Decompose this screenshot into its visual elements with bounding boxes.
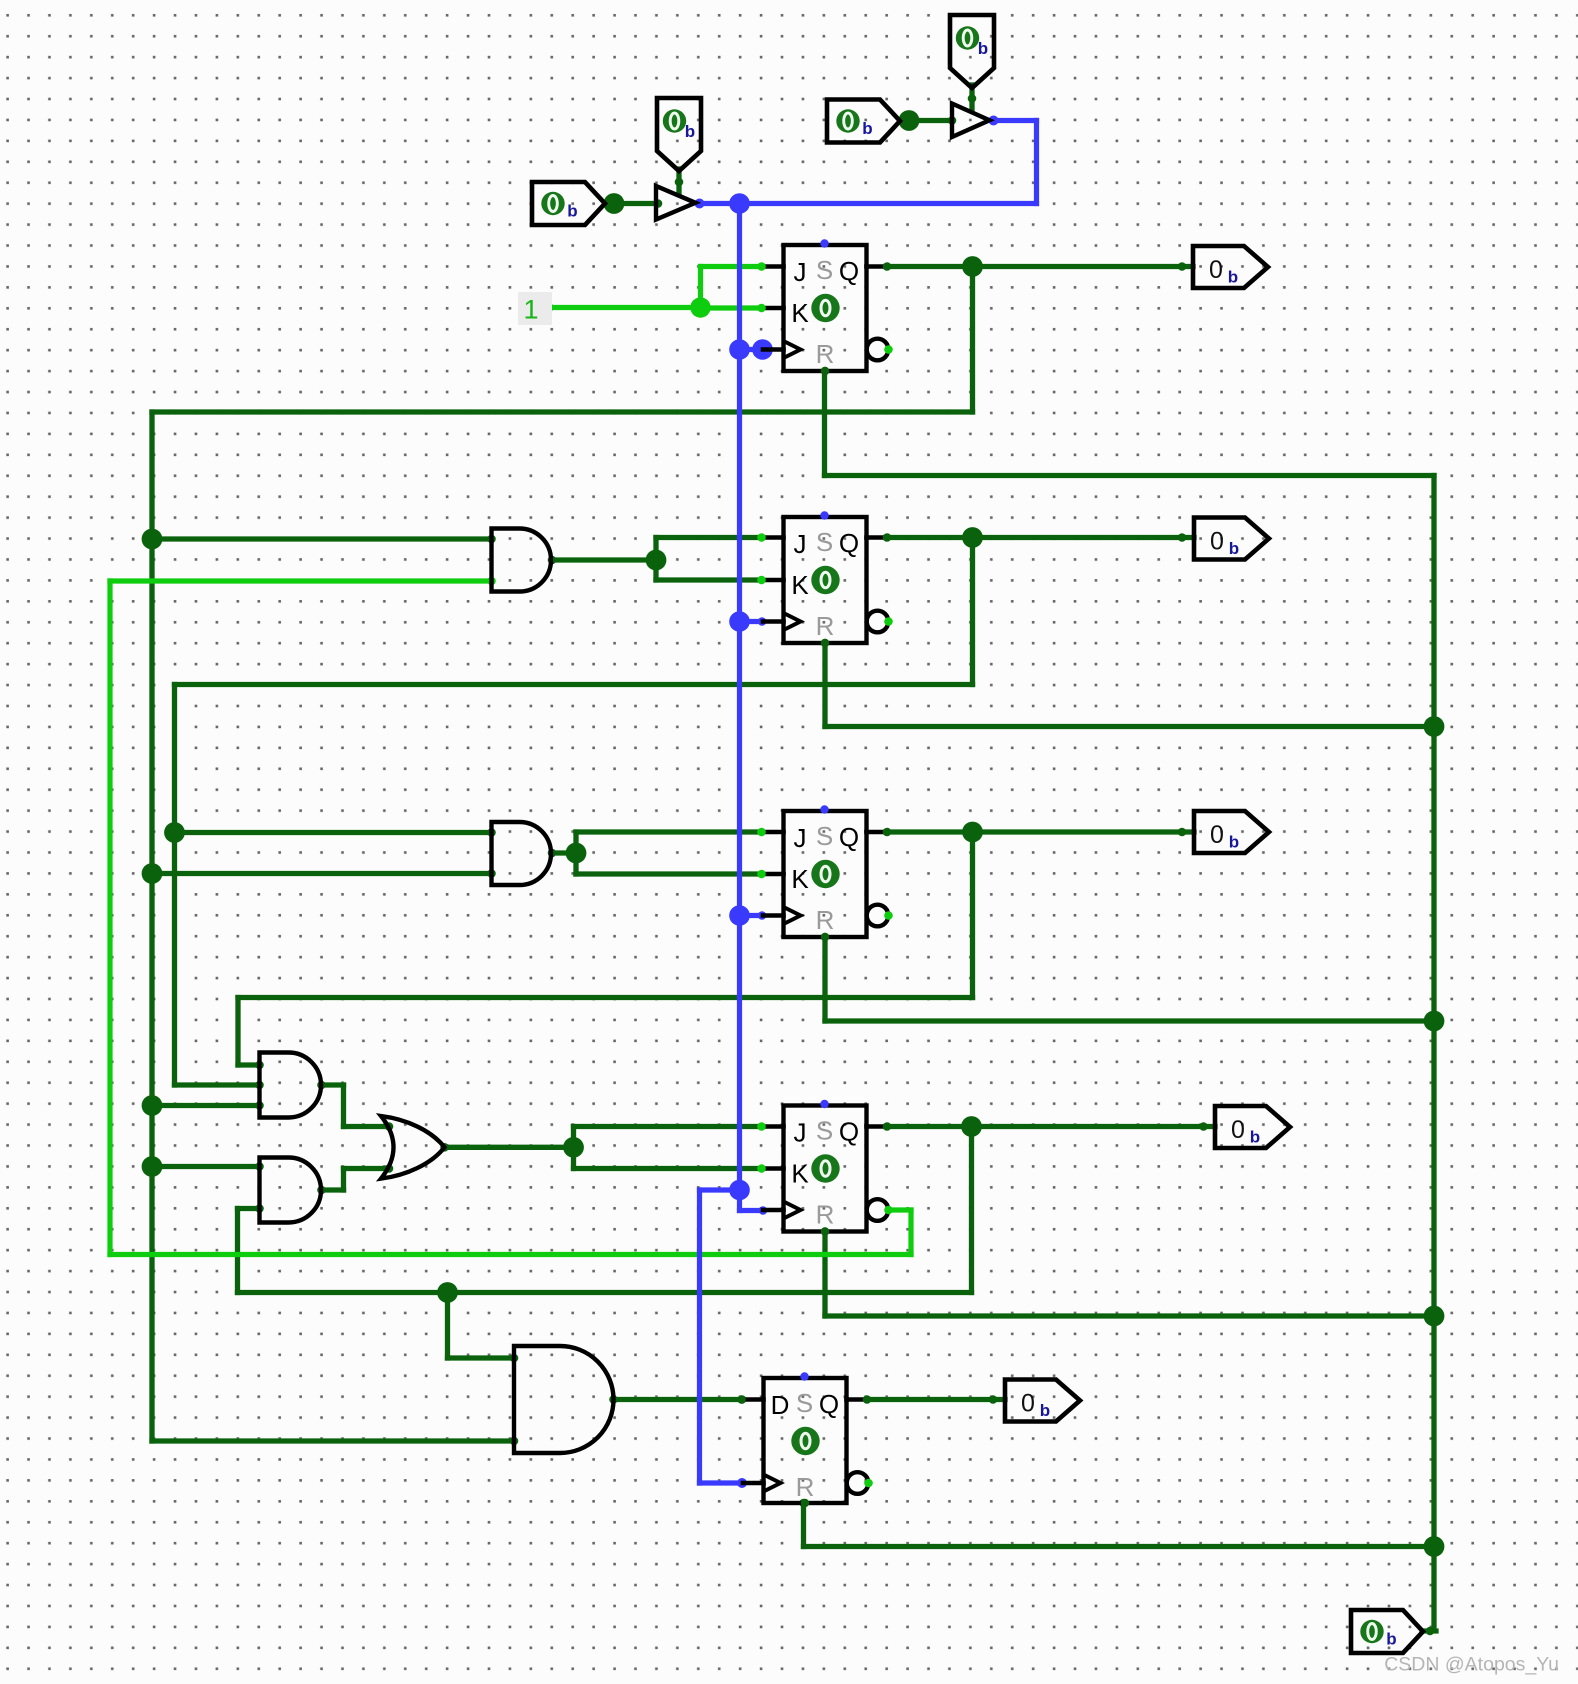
- svg-text:0: 0: [1231, 1116, 1245, 1144]
- svg-text:CSDN @Atopos_Yu: CSDN @Atopos_Yu: [1384, 1654, 1559, 1676]
- svg-text:S: S: [816, 527, 833, 557]
- svg-text:J: J: [794, 529, 807, 559]
- svg-text:K: K: [791, 298, 809, 328]
- svg-text:1: 1: [523, 295, 538, 325]
- svg-text:Q: Q: [839, 822, 859, 852]
- svg-text:R: R: [816, 611, 835, 641]
- svg-text:b: b: [1228, 268, 1238, 287]
- svg-text:R: R: [796, 1472, 815, 1502]
- svg-text:b: b: [1250, 1128, 1260, 1147]
- svg-text:0: 0: [1210, 528, 1224, 556]
- svg-text:J: J: [794, 823, 807, 853]
- svg-text:b: b: [1229, 833, 1239, 852]
- svg-text:R: R: [816, 339, 835, 369]
- svg-text:K: K: [791, 1159, 809, 1189]
- svg-text:R: R: [816, 1200, 835, 1230]
- svg-text:b: b: [567, 202, 577, 221]
- svg-text:S: S: [796, 1388, 813, 1418]
- svg-text:J: J: [794, 1118, 807, 1148]
- svg-text:Q: Q: [839, 256, 859, 286]
- svg-text:R: R: [816, 905, 835, 935]
- svg-text:0: 0: [1021, 1390, 1035, 1418]
- svg-text:0: 0: [1210, 821, 1224, 849]
- svg-text:b: b: [1229, 539, 1239, 558]
- svg-text:J: J: [794, 257, 807, 287]
- svg-text:Q: Q: [839, 528, 859, 558]
- svg-text:b: b: [685, 122, 695, 141]
- svg-text:S: S: [816, 821, 833, 851]
- svg-text:S: S: [816, 1116, 833, 1146]
- svg-text:b: b: [978, 39, 988, 58]
- svg-text:b: b: [1386, 1630, 1396, 1649]
- svg-text:S: S: [816, 255, 833, 285]
- svg-text:D: D: [771, 1390, 790, 1420]
- svg-text:Q: Q: [839, 1117, 859, 1147]
- svg-text:Q: Q: [819, 1389, 839, 1419]
- svg-text:K: K: [791, 570, 809, 600]
- svg-text:b: b: [1040, 1401, 1050, 1420]
- svg-text:b: b: [862, 119, 872, 138]
- svg-text:K: K: [791, 864, 809, 894]
- svg-text:0: 0: [1209, 256, 1223, 284]
